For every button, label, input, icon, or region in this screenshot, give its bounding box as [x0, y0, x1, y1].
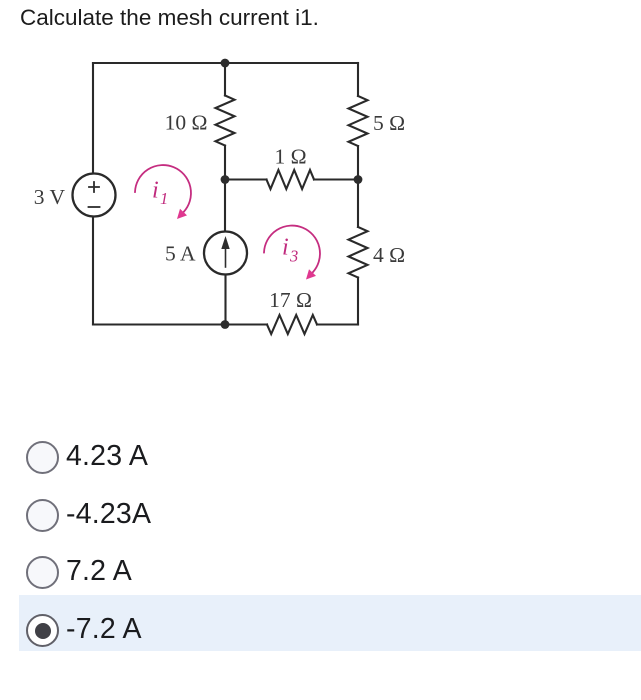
mesh current arrow i3	[264, 226, 320, 280]
wire right upper	[357, 63, 359, 96]
wire middle branch mid	[224, 146, 226, 232]
svg-text:5 Ω: 5 Ω	[373, 111, 405, 135]
svg-text:1 Ω: 1 Ω	[274, 145, 306, 169]
svg-text:5 A: 5 A	[165, 242, 196, 266]
wire right lower	[357, 278, 359, 325]
wire bottom left	[93, 323, 267, 325]
resistor R 10ohm	[216, 96, 235, 146]
wire bottom right	[317, 323, 358, 325]
wire middle branch lower	[224, 275, 226, 325]
node top	[221, 59, 230, 68]
label i1	[152, 178, 168, 209]
resistor R 5ohm	[349, 96, 368, 146]
svg-text:i: i	[282, 235, 289, 261]
wire mesh middle horizontal	[225, 178, 358, 180]
svg-text:3: 3	[289, 247, 298, 266]
svg-text:4 Ω: 4 Ω	[373, 243, 405, 267]
wire top	[93, 62, 358, 64]
svg-text:17 Ω: 17 Ω	[269, 288, 312, 312]
wire right mid	[357, 146, 359, 227]
option A 4.23 A	[0, 429, 641, 485]
resistor R 1ohm	[267, 170, 315, 189]
wire left lower	[92, 217, 94, 325]
resistor R 4ohm	[349, 227, 368, 278]
wire middle branch upper	[224, 63, 226, 96]
current source arrow	[221, 236, 229, 267]
resistor R 17ohm	[267, 315, 317, 334]
voltage source minus sign	[89, 206, 100, 208]
svg-text:1: 1	[160, 189, 168, 208]
wire left upper	[92, 63, 94, 174]
svg-text:i: i	[152, 178, 159, 204]
label i3	[282, 235, 298, 266]
node middle left	[221, 175, 230, 184]
question title	[20, 5, 319, 31]
node bottom	[221, 320, 230, 329]
voltage source V1 3V circle	[73, 174, 116, 217]
svg-text:3 V: 3 V	[34, 185, 66, 209]
selected row highlight	[19, 595, 641, 651]
option C 7.2 A	[0, 544, 641, 600]
node middle right	[354, 175, 363, 184]
current source I1 5A circle	[204, 232, 247, 275]
mesh current arrow i1	[135, 165, 191, 219]
option B -4.23A	[0, 487, 641, 543]
option D -7.2 A selected	[0, 602, 641, 658]
voltage source plus sign	[89, 182, 99, 192]
svg-text:10 Ω: 10 Ω	[165, 111, 208, 135]
